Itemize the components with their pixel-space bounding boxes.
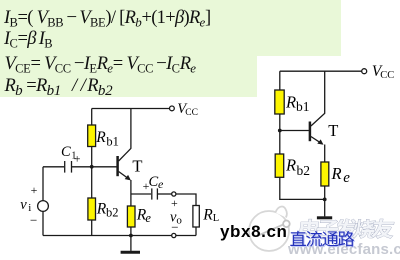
ground right (324, 199, 326, 216)
svg-text:+: + (74, 152, 81, 166)
wire Rb2 top (279, 131, 281, 155)
svg-text:C: C (149, 174, 159, 190)
node vo bottom terminal (172, 233, 176, 237)
wire vi bottom (42, 211, 44, 235)
capacitor Ce (151, 188, 153, 199)
wire Rb1 top (279, 71, 281, 90)
svg-text:R: R (285, 93, 296, 112)
svg-text:e: e (145, 211, 151, 225)
wire Rb1 bottom (279, 114, 281, 131)
capacitor C1 (64, 161, 66, 173)
resistor Rb1 (275, 90, 284, 114)
node base junction (90, 165, 94, 169)
wire bottom rail (43, 235, 196, 237)
transistor T2 emitter arrow (311, 137, 322, 144)
node ground junction (129, 234, 133, 238)
svg-text:CC: CC (185, 108, 198, 118)
wire RL bottom (195, 227, 197, 236)
wire top rail (280, 70, 362, 72)
wire base left of C1 (43, 166, 64, 168)
ybx8.cn watermark text (220, 222, 288, 242)
formula line 3 (5, 53, 196, 77)
svg-text:e: e (158, 177, 164, 191)
resistor Re left (127, 206, 135, 227)
svg-text:T: T (132, 157, 142, 176)
transistor T2 base bar (309, 122, 312, 142)
wire vo to RL (176, 194, 196, 206)
svg-text:R: R (95, 129, 106, 146)
svg-text:b2: b2 (297, 163, 311, 178)
transistor T1 emitter arrow (119, 172, 130, 180)
wire emitter down (324, 145, 326, 163)
elecfans url watermark (288, 241, 400, 258)
svg-text:b1: b1 (106, 134, 119, 148)
node base junction (278, 129, 282, 133)
node VCC terminal (362, 69, 367, 74)
svg-text:v: v (20, 197, 27, 213)
resistor Rb1 left (88, 125, 96, 147)
wire vi top (42, 167, 44, 201)
svg-text:R: R (331, 164, 342, 183)
ground left (130, 236, 132, 251)
transistor T1 base bar (116, 156, 119, 176)
node ground junction right (323, 198, 327, 202)
wire Rb2 right bottom and bottom rail (280, 177, 325, 199)
white panel behind right circuit (257, 56, 400, 246)
wire Rb1 top (91, 109, 93, 126)
svg-text:−: − (30, 212, 37, 227)
resistor Rb2 left (88, 198, 96, 220)
svg-text:b1: b1 (296, 99, 310, 114)
svg-text:CC: CC (380, 70, 394, 81)
node VCC terminal (170, 106, 175, 111)
wire Re bottom (130, 227, 132, 236)
svg-text:−: − (171, 219, 178, 234)
svg-text:L: L (213, 213, 219, 224)
wire top rail (92, 108, 170, 110)
wire base to bar (72, 166, 117, 168)
formula highlight block (0, 0, 341, 97)
wire Rb2 top (91, 167, 93, 198)
formula line 2 (4, 29, 52, 52)
svg-text:+: + (31, 183, 38, 197)
svg-text:T: T (328, 121, 338, 140)
wire emitter down (130, 180, 132, 206)
svg-text:e: e (343, 170, 350, 186)
wire base (280, 130, 309, 132)
svg-text:R: R (202, 207, 213, 224)
wire Ce left (131, 193, 151, 195)
resistor Re right (321, 162, 329, 186)
svg-text:b2: b2 (106, 206, 119, 220)
resistor Rb2 right (275, 154, 284, 177)
formula line 1 (4, 7, 211, 31)
resistor RL (193, 206, 199, 228)
node vo top terminal (172, 192, 176, 196)
wire Ce right (158, 193, 172, 195)
source vi (38, 201, 49, 212)
formula line 4 (5, 76, 113, 100)
wire Rb2 bottom (91, 220, 93, 236)
svg-text:R: R (285, 156, 296, 175)
wire Re right bottom (324, 186, 326, 199)
transistor T1 collector (119, 109, 131, 162)
transistor T2 collector (311, 71, 325, 126)
svg-text:+: + (171, 196, 178, 210)
wire Rb1 bottom (91, 147, 93, 167)
svg-text:C: C (61, 144, 71, 160)
